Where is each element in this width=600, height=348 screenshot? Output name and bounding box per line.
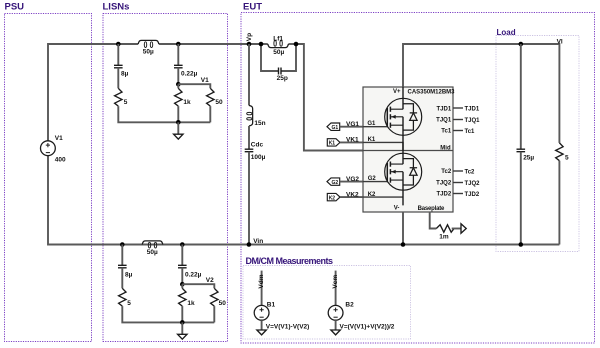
net flag K2 <box>327 193 340 201</box>
resistor 1k (LISN2) <box>179 288 186 306</box>
wire load cap top lead <box>520 44 522 149</box>
svg-text:Baseplate: Baseplate <box>418 206 445 212</box>
net flag K1 <box>327 139 340 147</box>
voltage source V1 <box>41 141 56 156</box>
wire 8µ cap top lead <box>117 44 119 65</box>
capacitor Cdc 100µ <box>245 149 254 152</box>
inductor Lf1 50µ <box>268 41 289 48</box>
node junction Lf1 left <box>259 42 264 47</box>
wire 8µ to R5 <box>117 68 119 89</box>
label B1 value <box>266 323 310 330</box>
wire K1 lead inside module <box>363 141 403 143</box>
wire 1k top lead <box>177 84 179 88</box>
node V- junction <box>401 242 406 247</box>
wire TJD1 pin stub <box>453 107 463 109</box>
svg-text:G1: G1 <box>332 125 339 131</box>
PSU section border <box>5 14 92 342</box>
wire Tc1 pin stub <box>453 130 463 132</box>
wire Vcm lead <box>335 271 337 306</box>
label K2 pin <box>368 192 376 198</box>
DM/CM Measurements section border <box>243 266 411 340</box>
label V- pin <box>394 206 400 212</box>
node V1 junction <box>176 82 181 87</box>
svg-text:15n: 15n <box>254 120 265 127</box>
label net V1 <box>201 77 209 84</box>
wire Vdm lead <box>261 271 263 306</box>
svg-text:1m: 1m <box>439 234 449 241</box>
net flag G2 <box>327 178 340 186</box>
wire load resistor bottom lead <box>558 161 560 245</box>
svg-text:TJQ1: TJQ1 <box>436 118 452 124</box>
label Cdc <box>251 142 264 149</box>
wire TJQ2 pin stub <box>453 182 463 184</box>
wire 0.22µ top lead (LISN2) <box>181 245 183 266</box>
label net Tc2 <box>465 170 476 176</box>
svg-text:Vp: Vp <box>246 33 253 41</box>
wire K2 lead inside module <box>363 196 403 198</box>
label 25p <box>277 75 288 82</box>
wire V1 top to positive rail <box>48 44 138 141</box>
label 0.22µ (LISN1) <box>181 71 198 78</box>
svg-text:8µ: 8µ <box>125 271 133 278</box>
wire 1m to chassis <box>452 228 461 230</box>
label B1 <box>267 302 276 309</box>
DM/CM Measurements section title <box>246 256 334 266</box>
module CAS350M12BM3 body <box>363 87 453 212</box>
node Vin junction <box>247 242 252 247</box>
resistor 5 (LISN1) <box>115 88 122 106</box>
svg-text:0.22µ: 0.22µ <box>185 271 202 278</box>
wire VG2 <box>340 181 363 183</box>
wire 1k bottom lead (LISN2) <box>181 306 183 322</box>
LISNs section border <box>103 14 228 342</box>
node junction Lf1 right <box>294 42 299 47</box>
svg-text:V-: V- <box>394 206 400 212</box>
ground B1 <box>257 320 266 335</box>
label 50µ (LISN1) <box>143 48 154 55</box>
svg-text:V1: V1 <box>55 135 63 142</box>
wire load cap bottom lead <box>520 152 522 245</box>
svg-text:0.22µ: 0.22µ <box>181 71 198 78</box>
label VK1 <box>346 137 359 144</box>
transistor Q1 (upper MOSFET) <box>385 87 422 151</box>
ground LISN2 <box>178 322 187 339</box>
label 8µ (LISN1) <box>121 71 129 78</box>
label 50µ (LISN2) <box>147 249 158 256</box>
node junction LISN1 bottom <box>176 120 181 125</box>
svg-text:V2: V2 <box>206 277 214 284</box>
label B2 <box>345 302 354 309</box>
label VK2 <box>346 191 359 198</box>
svg-text:5: 5 <box>127 300 131 307</box>
label K1 pin <box>368 137 376 143</box>
label 1m <box>439 234 449 241</box>
label VG1 <box>346 121 359 128</box>
label net Vp <box>246 33 253 41</box>
label 5 (LISN1) <box>124 99 128 106</box>
svg-text:DM/CM Measurements: DM/CM Measurements <box>246 256 334 266</box>
label net Vcm <box>332 275 339 289</box>
label net TJQ1 <box>465 118 481 124</box>
svg-text:B1: B1 <box>267 302 276 309</box>
svg-text:25µ: 25µ <box>523 154 534 161</box>
label net V2 <box>206 277 214 284</box>
label net TJQ2 <box>465 181 481 187</box>
svg-text:TJD1: TJD1 <box>437 106 452 112</box>
label net Vin <box>253 238 263 245</box>
svg-text:K2: K2 <box>329 195 336 201</box>
label 5 (LISN2) <box>127 300 131 307</box>
wire R5 bottom <box>118 106 210 122</box>
svg-text:V+: V+ <box>393 89 401 95</box>
svg-text:Lf1: Lf1 <box>273 36 283 43</box>
svg-text:K1: K1 <box>329 141 336 147</box>
node Vp junction <box>247 42 252 47</box>
svg-text:TJQ2: TJQ2 <box>436 180 452 186</box>
label net Vdm <box>258 274 265 288</box>
label TJQ1 pin inside <box>436 118 452 124</box>
svg-text:V=V(V1)-V(V2): V=V(V1)-V(V2) <box>266 323 310 330</box>
net flag G1 <box>327 123 340 131</box>
EUT section title <box>243 1 262 12</box>
wire TJQ1 pin stub <box>453 119 463 121</box>
label 25µ (load) <box>523 154 534 161</box>
svg-text:25p: 25p <box>277 75 288 82</box>
svg-text:Vdm: Vdm <box>258 274 265 288</box>
wire G2 gate lead inside module <box>363 181 387 183</box>
svg-text:TJQ2: TJQ2 <box>465 181 481 187</box>
LISNs section title <box>103 1 130 12</box>
label Lf1 <box>273 36 283 43</box>
svg-text:Cdc: Cdc <box>251 142 264 149</box>
label Tc2 pin inside <box>441 169 452 175</box>
svg-text:Tc2: Tc2 <box>465 170 476 176</box>
wire TJD2 pin stub <box>453 193 463 195</box>
svg-text:Load: Load <box>497 28 516 37</box>
label G1 pin <box>367 121 376 127</box>
svg-text:TJD1: TJD1 <box>465 107 480 113</box>
label net Tc1 <box>465 129 476 135</box>
capacitor 0.22µ (LISN1) <box>174 65 183 68</box>
label 1k (LISN1) <box>183 99 191 106</box>
svg-text:5: 5 <box>124 99 128 106</box>
inductor 15n <box>247 105 253 126</box>
label TJD2 pin inside <box>437 192 452 198</box>
svg-text:EUT: EUT <box>243 1 262 12</box>
label B2 value <box>340 323 395 330</box>
label 50µ (Lf1) <box>273 49 284 56</box>
svg-text:50µ: 50µ <box>143 48 154 55</box>
svg-text:VG2: VG2 <box>346 176 359 183</box>
wire Cf bypass right <box>281 44 296 71</box>
svg-text:Vl: Vl <box>557 39 563 46</box>
svg-text:50µ: 50µ <box>147 249 158 256</box>
svg-text:50: 50 <box>219 300 227 307</box>
wire VK1 <box>340 141 363 143</box>
label 1k (LISN2) <box>187 300 195 307</box>
transistor Q2 (lower MOSFET) <box>385 142 422 206</box>
inductor LISN2 50µ <box>142 241 163 248</box>
label 50 (LISN1) <box>215 99 223 106</box>
wire node V1 to R50 <box>178 84 210 88</box>
wire 0.22µ to node V1 <box>177 68 179 84</box>
wire Lf1 left lead <box>261 43 268 45</box>
wire 8µ cap top lead (LISN2) <box>121 245 123 266</box>
wire 15n to Cdc <box>248 126 250 149</box>
svg-text:G2: G2 <box>332 180 339 186</box>
wire Vp down to 15n <box>248 44 250 105</box>
svg-text:TJD2: TJD2 <box>465 192 480 198</box>
svg-text:VK2: VK2 <box>346 191 359 198</box>
svg-text:Tc2: Tc2 <box>441 169 452 175</box>
wire Cf bypass left <box>261 44 278 71</box>
svg-text:Tc1: Tc1 <box>465 129 476 135</box>
wire 0.22µ top lead <box>177 44 179 65</box>
node junction LISN1 right <box>176 42 181 47</box>
svg-text:VG1: VG1 <box>346 121 359 128</box>
svg-text:B2: B2 <box>345 302 354 309</box>
svg-text:50: 50 <box>215 99 223 106</box>
svg-text:1k: 1k <box>183 99 191 106</box>
svg-text:Vin: Vin <box>253 238 263 245</box>
label TJD1 pin inside <box>437 106 452 112</box>
label 0.22µ (LISN2) <box>185 271 202 278</box>
capacitor 25µ (load) <box>517 149 526 152</box>
label VG2 <box>346 176 359 183</box>
label net TJD1 <box>465 107 480 113</box>
wire R50 bottom lead <box>209 106 211 122</box>
svg-text:Tc1: Tc1 <box>441 128 452 134</box>
wire 0.22µ to node V2 <box>181 268 183 284</box>
label 15n <box>254 120 265 127</box>
svg-text:TJD2: TJD2 <box>437 192 452 198</box>
Load section border <box>496 36 579 252</box>
node junction LISN1 left <box>116 42 121 47</box>
capacitor 25p <box>279 68 282 75</box>
node junction load cap top <box>519 42 524 47</box>
node junction load cap bottom <box>519 242 524 247</box>
wire Lf1 output to Mid pin <box>296 44 363 151</box>
svg-text:8µ: 8µ <box>121 71 129 78</box>
wire VK2 <box>340 196 363 198</box>
label V1 <box>55 135 63 142</box>
resistor 1m (baseplate) <box>436 225 454 232</box>
inductor LISN1 50µ <box>138 40 159 47</box>
wire V+ to top rail <box>403 44 559 143</box>
svg-text:CAS350M12BM3: CAS350M12BM3 <box>408 89 456 95</box>
wire Lf1 right lead <box>288 43 296 45</box>
wire 1k bottom lead <box>177 106 179 122</box>
svg-text:Mid: Mid <box>440 145 451 151</box>
label 50 (LISN2) <box>219 300 227 307</box>
svg-text:Vcm: Vcm <box>332 275 339 289</box>
capacitor 8µ (LISN1) <box>114 65 123 68</box>
label 100µ <box>251 154 266 161</box>
svg-text:V=(V(V1)+V(V2))/2: V=(V(V1)+V(V2))/2 <box>340 323 395 330</box>
label net TJD2 <box>465 192 480 198</box>
node junction LISN2 right <box>180 242 185 247</box>
ground chassis (rotated) <box>461 224 466 233</box>
wire Cdc to Vin rail <box>248 152 250 245</box>
wire V- to negative rail <box>402 212 404 245</box>
label 8µ (LISN2) <box>125 271 133 278</box>
label 5 (load) <box>565 154 569 161</box>
svg-text:400: 400 <box>55 157 66 164</box>
node junction LISN2 left <box>120 242 125 247</box>
label CAS350M12BM3 <box>408 89 456 95</box>
label net Vl <box>557 39 563 46</box>
svg-text:PSU: PSU <box>5 1 25 12</box>
wire R50 bottom lead (LISN2) <box>213 306 215 322</box>
svg-text:1k: 1k <box>187 300 195 307</box>
svg-text:100µ: 100µ <box>251 154 266 161</box>
Load section title <box>497 28 516 37</box>
module Mid divider line <box>363 150 453 152</box>
label Tc1 pin inside <box>441 128 452 134</box>
resistor 50 (LISN2) <box>211 288 218 306</box>
wire 8µ to R5 (LISN2) <box>121 268 123 289</box>
ground B2 <box>331 320 340 335</box>
svg-text:LISNs: LISNs <box>103 1 130 12</box>
resistor 1k (LISN1) <box>175 88 182 106</box>
capacitor 8µ (LISN2) <box>118 265 127 268</box>
node V2 junction <box>180 282 185 287</box>
label TJQ2 pin inside <box>436 180 452 186</box>
wire positive rail LISN segment <box>159 43 261 45</box>
wire G1 gate lead inside module <box>363 126 387 128</box>
wire VG1 <box>340 126 363 128</box>
wire 1k top lead (LISN2) <box>181 284 183 288</box>
label 400 <box>55 157 66 164</box>
label Mid pin <box>440 145 451 151</box>
label G2 pin <box>368 176 377 182</box>
EUT section border <box>241 13 595 344</box>
bsource B1 <box>254 305 269 320</box>
wire node V2 to R50 <box>182 284 214 288</box>
resistor 5 (LISN2) <box>119 288 126 306</box>
ground LISN1 <box>174 122 183 139</box>
wire Baseplate lead <box>430 212 437 229</box>
svg-text:VK1: VK1 <box>346 137 359 144</box>
node junction LISN2 bottom <box>180 320 185 325</box>
wire Tc2 pin stub <box>453 170 463 172</box>
svg-text:V1: V1 <box>201 77 209 84</box>
label Baseplate pin <box>418 206 445 212</box>
resistor 50 (LISN1) <box>207 88 214 106</box>
bsource B2 <box>328 305 343 320</box>
wire negative rail <box>48 156 559 245</box>
PSU section title <box>5 1 25 12</box>
label V+ pin <box>393 89 401 95</box>
svg-text:5: 5 <box>565 154 569 161</box>
svg-text:50µ: 50µ <box>273 49 284 56</box>
capacitor 0.22µ (LISN2) <box>178 265 187 268</box>
wire R5 bottom (LISN2) <box>122 306 214 322</box>
resistor 5 (load) <box>556 143 563 161</box>
svg-text:TJQ1: TJQ1 <box>465 118 481 124</box>
